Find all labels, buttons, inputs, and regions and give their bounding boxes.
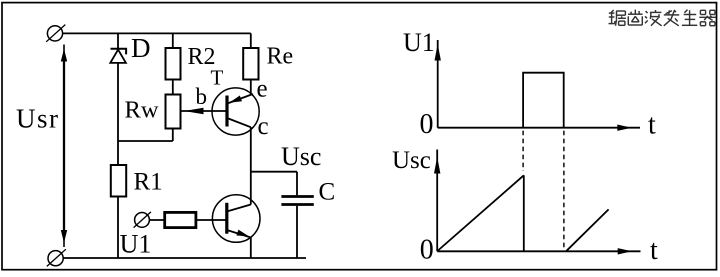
svg-text:U1: U1: [120, 229, 152, 258]
svg-text:Rw: Rw: [125, 97, 159, 124]
svg-text:C: C: [319, 178, 336, 205]
svg-text:D: D: [131, 33, 151, 63]
svg-text:0: 0: [420, 234, 434, 265]
svg-text:0: 0: [420, 109, 434, 140]
svg-text:R1: R1: [134, 168, 163, 195]
svg-text:Usc: Usc: [392, 147, 431, 174]
svg-text:t: t: [648, 110, 656, 141]
svg-text:U1: U1: [403, 28, 435, 57]
svg-text:c: c: [258, 113, 269, 140]
svg-text:b: b: [196, 84, 208, 109]
svg-text:Usr: Usr: [16, 104, 60, 134]
svg-text:Re: Re: [267, 44, 294, 70]
svg-text:t: t: [650, 235, 658, 266]
svg-text:T: T: [211, 66, 224, 90]
svg-text:Usc: Usc: [281, 142, 321, 171]
svg-text:e: e: [257, 75, 268, 102]
